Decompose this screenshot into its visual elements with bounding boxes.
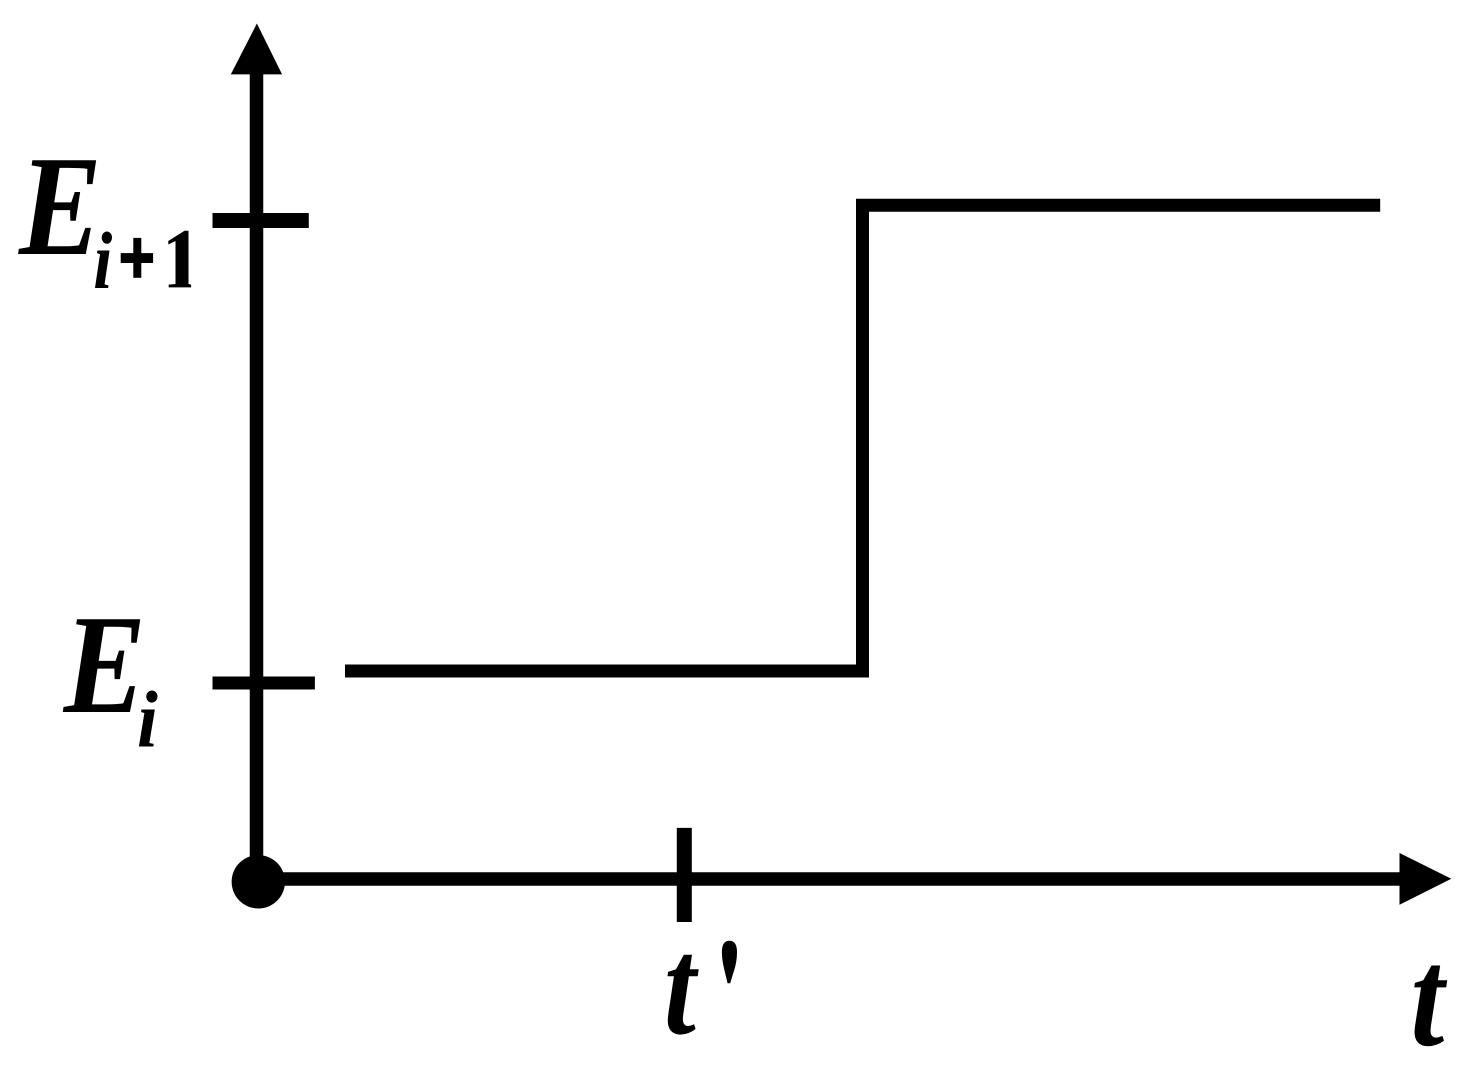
x-axis arrowhead — [1400, 853, 1452, 905]
svg-text:E: E — [18, 127, 102, 285]
tick E_i+1 on y-axis — [213, 213, 309, 228]
svg-text:E: E — [63, 586, 146, 743]
tick t' on x-axis — [677, 828, 692, 922]
svg-text:t: t — [664, 909, 699, 1064]
origin dot — [232, 855, 285, 908]
label E of E_i — [63, 586, 146, 743]
svg-text:i: i — [93, 217, 112, 307]
label subscript i of E_i+1 — [93, 217, 112, 307]
label t at end of x-axis — [1411, 920, 1448, 1072]
x-axis line — [258, 872, 1402, 886]
svg-text:i: i — [137, 675, 158, 764]
tick E_i on y-axis — [213, 677, 315, 690]
label subscript 1 of E_i+1 — [168, 231, 191, 288]
label subscript i of E_i — [137, 675, 158, 764]
label prime of t' — [722, 941, 737, 984]
label E of E_i+1 — [18, 127, 102, 285]
svg-text:t: t — [1411, 920, 1448, 1072]
label t of t' below x-axis — [664, 909, 699, 1064]
label subscript + of E_i+1 — [121, 238, 153, 278]
y-axis line — [250, 72, 264, 884]
y-axis arrowhead — [231, 24, 282, 75]
step waveform: low level E_i then jump at t' to E_i+1 — [345, 205, 1380, 671]
